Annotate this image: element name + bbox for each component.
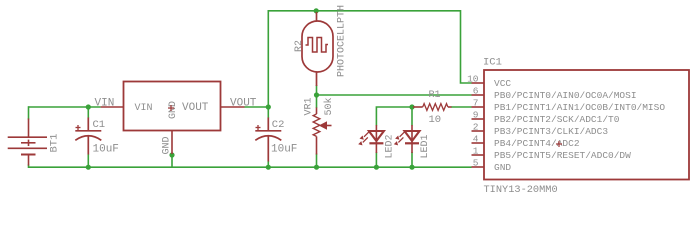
wire PB0 net photocell bottom to pin 6 <box>317 85 472 95</box>
svg-text:10uF: 10uF <box>93 143 119 155</box>
svg-text:1: 1 <box>473 146 479 157</box>
svg-text:PB5/PCINT5/RESET/ADC0/DW: PB5/PCINT5/RESET/ADC0/DW <box>494 150 631 161</box>
svg-text:GND: GND <box>494 162 511 173</box>
wire LED1 top drop <box>411 107 413 126</box>
wire R1 to pin 7 <box>451 106 472 108</box>
svg-text:10: 10 <box>429 114 442 126</box>
svg-text:6: 6 <box>473 86 479 97</box>
svg-text:10: 10 <box>467 74 479 85</box>
svg-text:PB3/PCINT3/CLKI/ADC3: PB3/PCINT3/CLKI/ADC3 <box>494 126 608 137</box>
wire PB1 net LED2 corner to R1 <box>376 107 412 126</box>
wire top rail VCC <box>268 11 471 107</box>
svg-text:7: 7 <box>473 98 479 109</box>
resistor R1 <box>413 104 452 111</box>
battery BT1 <box>8 119 47 166</box>
IC1 pin 2 stub <box>472 130 485 132</box>
svg-text:PB2/PCINT2/SCK/ADC1/T0: PB2/PCINT2/SCK/ADC1/T0 <box>494 114 620 125</box>
IC1 pin 6 stub <box>472 94 485 96</box>
capacitor C2 <box>255 118 281 162</box>
wire C2 top drop <box>267 107 269 118</box>
svg-text:R2: R2 <box>294 40 305 52</box>
wire photocell top pin connection <box>315 11 317 14</box>
wire LED1 bottom drop <box>411 152 413 167</box>
wire VIN net battery to regulator <box>29 106 101 108</box>
svg-text:R1: R1 <box>429 90 441 101</box>
potentiometer VR1 wiper arrow <box>319 121 327 130</box>
svg-text:C2: C2 <box>272 119 285 131</box>
svg-text:50k: 50k <box>323 97 335 115</box>
svg-text:GND: GND <box>168 101 179 119</box>
IC1 pin 4 stub <box>472 142 485 144</box>
IC1 pin 7 stub <box>472 106 485 108</box>
junction node VOUT at C2 <box>266 104 271 109</box>
pin GND of regulator <box>171 131 173 155</box>
svg-text:BT1: BT1 <box>49 134 61 153</box>
svg-text:LED1: LED1 <box>420 134 431 158</box>
svg-text:9: 9 <box>473 110 479 121</box>
junction node VIN at C1 <box>86 104 91 109</box>
svg-text:GND: GND <box>162 136 173 154</box>
junction node regulator GND <box>169 152 174 157</box>
svg-text:VOUT: VOUT <box>230 98 257 110</box>
svg-text:2: 2 <box>473 122 479 133</box>
IC1 box <box>484 70 689 180</box>
svg-text:PB1/PCINT1/AIN1/OC0B/INT0/MISO: PB1/PCINT1/AIN1/OC0B/INT0/MISO <box>494 102 665 113</box>
LED LED1 <box>398 125 419 153</box>
regulator origin cross <box>168 105 174 111</box>
svg-text:VR1: VR1 <box>304 97 315 115</box>
junction node GND at C1 <box>86 165 91 170</box>
wire LED2 bottom drop <box>375 152 377 167</box>
wire VR1 top drop <box>316 95 318 108</box>
svg-text:C1: C1 <box>93 119 106 131</box>
svg-text:PHOTOCELLPTH: PHOTOCELLPTH <box>337 5 348 77</box>
voltage regulator U-box <box>124 82 221 131</box>
IC1 pin 10 stub <box>472 82 485 84</box>
capacitor C1 <box>75 118 101 155</box>
LED1 arrow heads <box>395 136 399 140</box>
pin VIN of regulator <box>101 106 124 108</box>
svg-text:5: 5 <box>473 158 479 169</box>
wire regulator GND drop <box>171 155 173 167</box>
wire C1 top drop <box>87 107 89 118</box>
svg-text:TINY13-20MM0: TINY13-20MM0 <box>484 184 558 196</box>
junction node GND at LED2 <box>374 165 379 170</box>
wire battery bottom drop <box>29 165 472 168</box>
potentiometer VR1 <box>313 108 331 155</box>
IC1 pin 9 stub <box>472 118 485 120</box>
pin VOUT of regulator <box>221 106 245 108</box>
junction node photocell top <box>314 8 319 13</box>
svg-text:PB4/PCINT4/ADC2: PB4/PCINT4/ADC2 <box>494 138 580 149</box>
svg-text:IC1: IC1 <box>483 57 502 69</box>
wire VOUT net regulator to junction <box>245 106 269 108</box>
wire battery top drop <box>28 106 30 119</box>
LED2 arrow heads <box>360 136 364 140</box>
junction node GND at LED1 <box>409 165 414 170</box>
junction node PB0 divider <box>314 92 319 97</box>
LED LED2 <box>363 125 384 153</box>
IC1 origin cross <box>556 141 562 147</box>
IC1 pin 1 stub <box>472 154 485 156</box>
junction node PB1 at R1 <box>409 104 414 109</box>
svg-text:PB0/PCINT0/AIN0/OC0A/MOSI: PB0/PCINT0/AIN0/OC0A/MOSI <box>494 90 637 101</box>
svg-text:VIN: VIN <box>135 103 153 114</box>
svg-text:LED2: LED2 <box>385 134 396 158</box>
IC1 pin 5 stub <box>472 166 485 168</box>
wire C1 bottom drop <box>87 154 89 167</box>
wire VR1 bottom drop <box>316 154 318 168</box>
junction node GND at C2 <box>266 165 271 170</box>
wire C2 bottom drop <box>267 161 269 167</box>
svg-text:VCC: VCC <box>494 78 511 89</box>
svg-text:4: 4 <box>473 134 479 145</box>
photocell R2 <box>302 12 333 86</box>
junction node GND at VR1 <box>314 165 319 170</box>
svg-text:VOUT: VOUT <box>182 102 209 114</box>
svg-text:10uF: 10uF <box>271 143 297 155</box>
